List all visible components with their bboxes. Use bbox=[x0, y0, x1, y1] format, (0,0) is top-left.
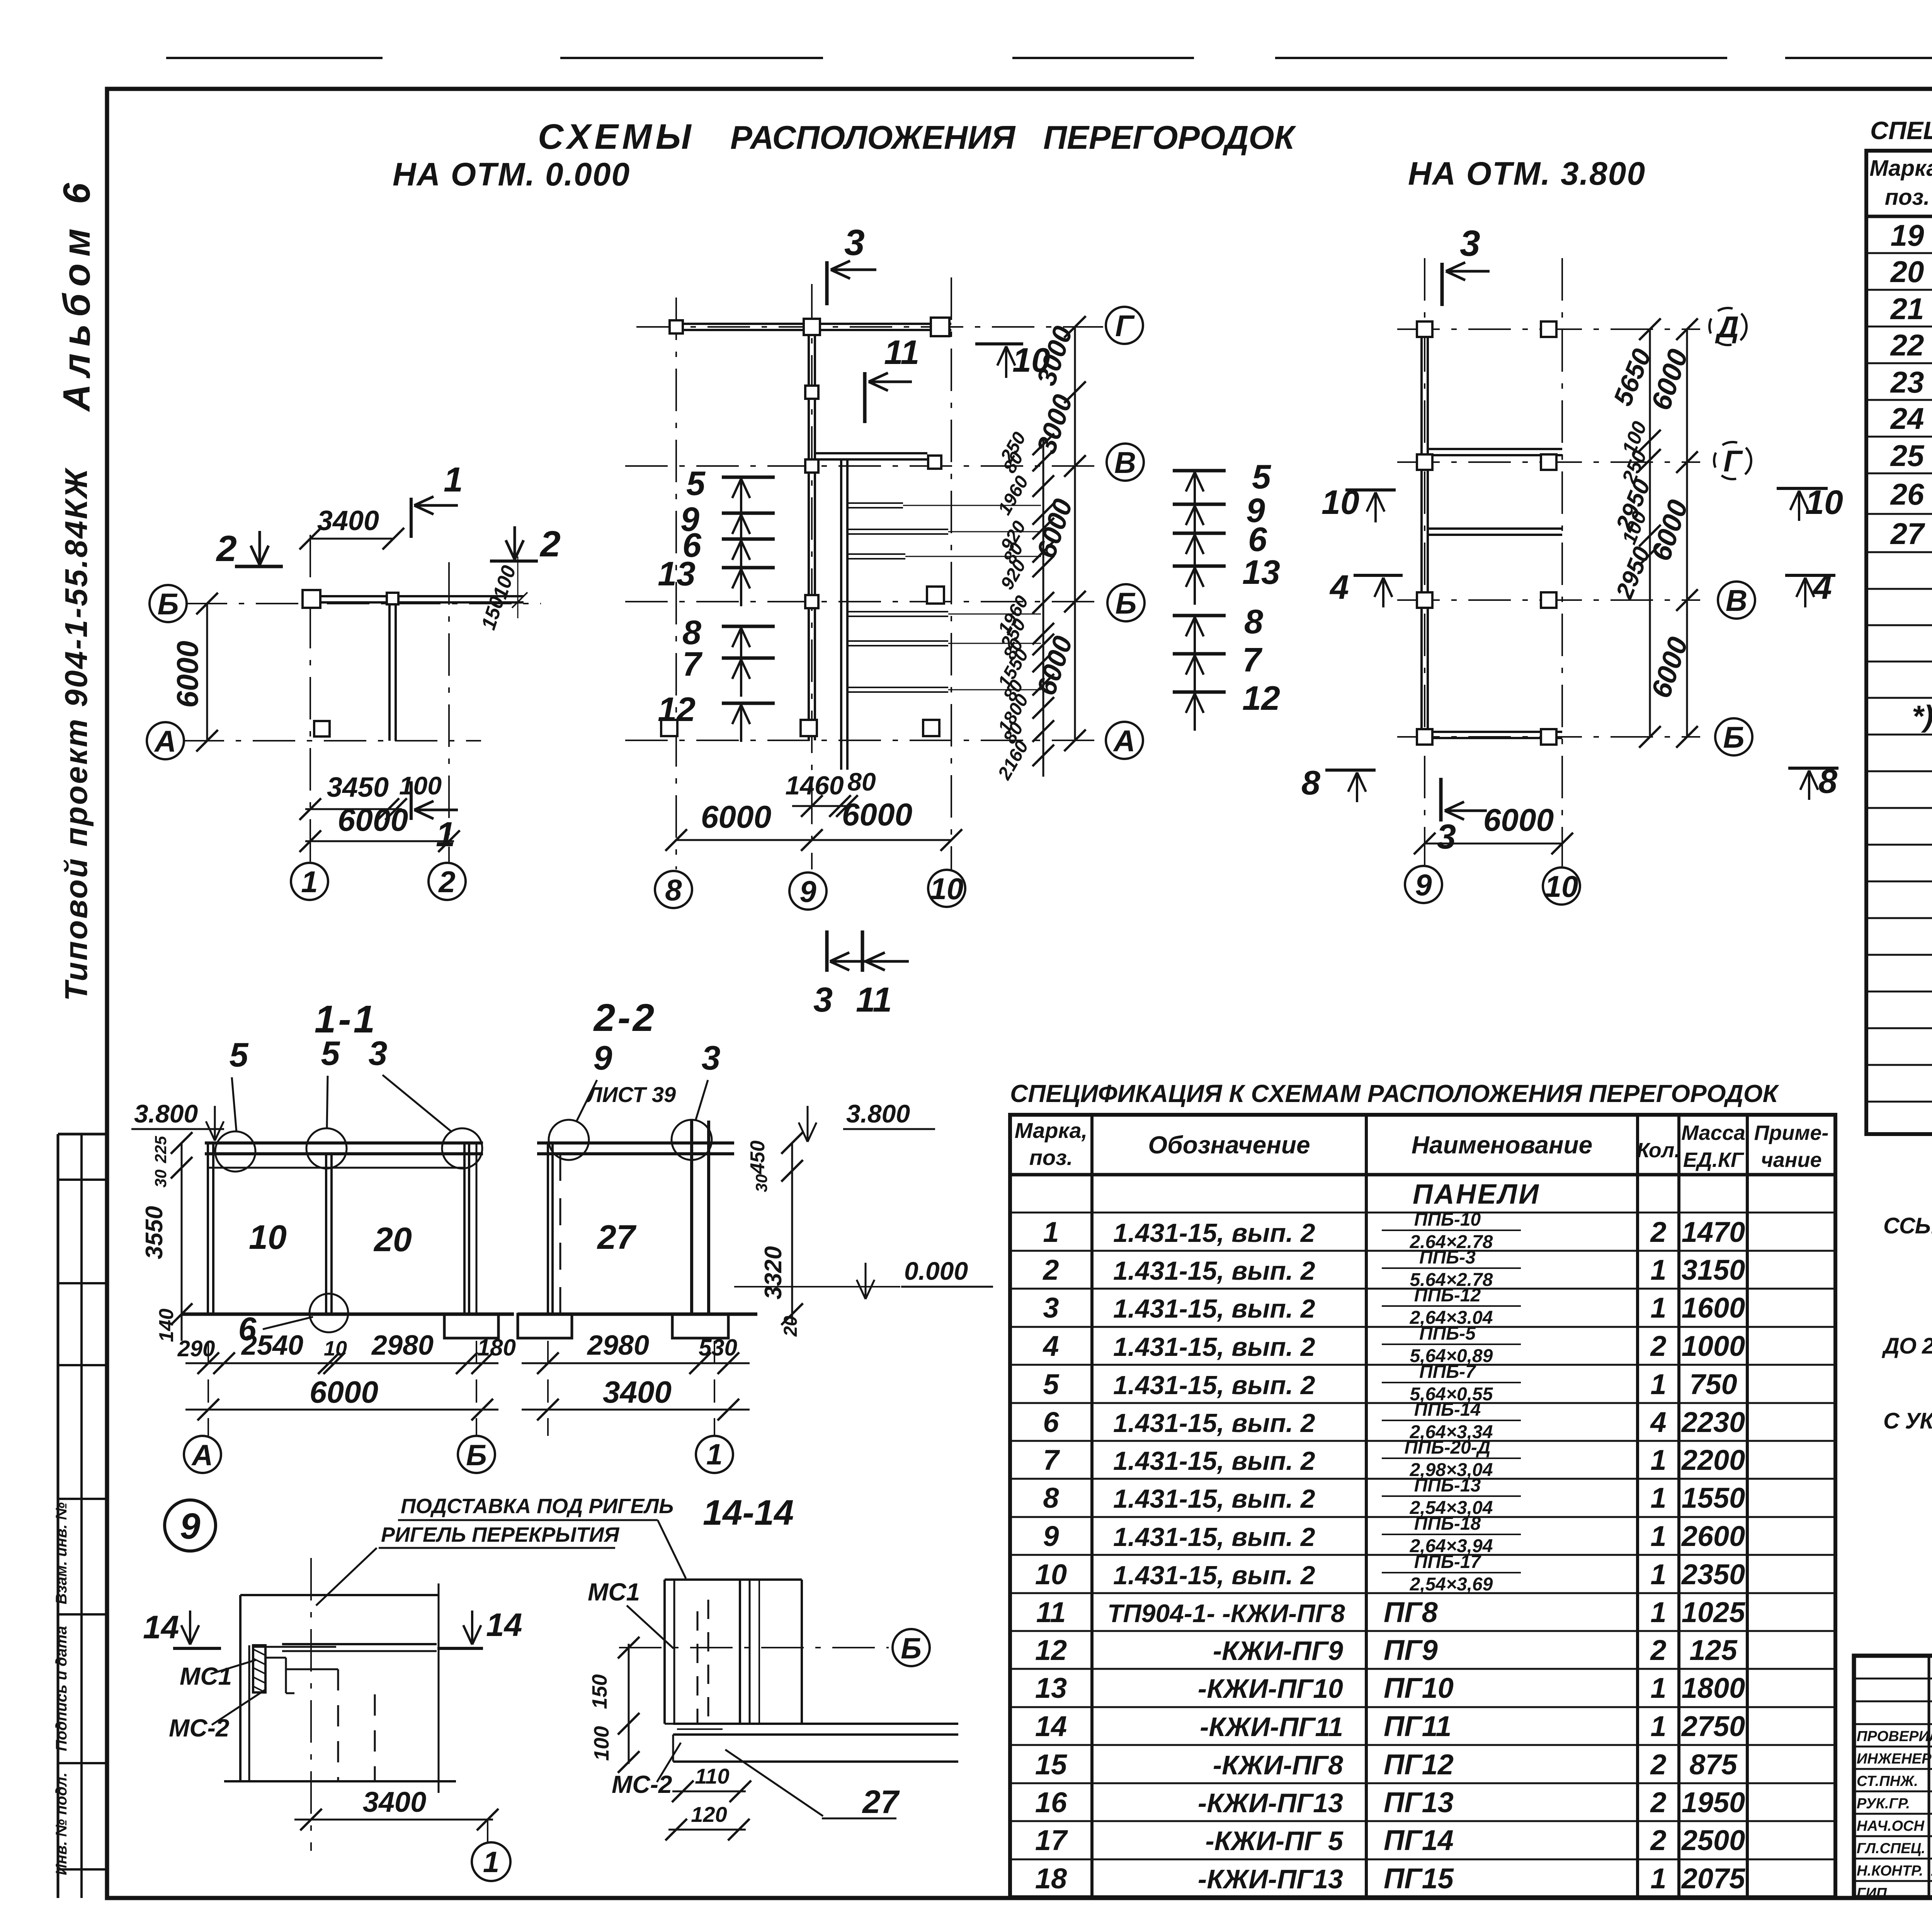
svg-text:Наименование: Наименование bbox=[1412, 1131, 1592, 1159]
svg-text:ССЫЛОК НА ЛИСТЫ, ПРИНЯТЫ ПО СЕ: ССЫЛОК НА ЛИСТЫ, ПРИНЯТЫ ПО СЕРИИ 1.431-… bbox=[1883, 1213, 1932, 1238]
svg-text:9: 9 bbox=[180, 1506, 201, 1547]
svg-text:5: 5 bbox=[321, 1034, 340, 1072]
svg-text:А: А bbox=[154, 724, 176, 758]
svg-text:5: 5 bbox=[230, 1036, 249, 1074]
svg-text:9: 9 bbox=[1043, 1520, 1059, 1552]
svg-text:20: 20 bbox=[373, 1220, 412, 1259]
svg-text:Марка,: Марка, bbox=[1869, 156, 1932, 181]
svg-text:3550: 3550 bbox=[141, 1206, 168, 1259]
svg-text:125: 125 bbox=[1689, 1634, 1738, 1666]
svg-text:5: 5 bbox=[1252, 457, 1271, 496]
svg-text:8: 8 bbox=[665, 873, 682, 907]
svg-text:ПЕРЕГОРОДОК: ПЕРЕГОРОДОК bbox=[1043, 119, 1297, 156]
svg-text:3: 3 bbox=[813, 981, 833, 1019]
svg-text:16: 16 bbox=[1035, 1786, 1067, 1818]
svg-text:2540: 2540 bbox=[241, 1330, 303, 1361]
svg-text:1: 1 bbox=[1650, 1444, 1666, 1476]
svg-text:3400: 3400 bbox=[363, 1786, 427, 1818]
svg-text:В: В bbox=[1114, 446, 1136, 480]
svg-text:2: 2 bbox=[1042, 1254, 1059, 1286]
svg-text:1.431-15, вып. 2: 1.431-15, вып. 2 bbox=[1113, 1256, 1315, 1286]
svg-text:1: 1 bbox=[706, 1438, 723, 1471]
svg-text:2: 2 bbox=[539, 524, 561, 565]
svg-text:2350: 2350 bbox=[1681, 1558, 1745, 1590]
svg-text:4: 4 bbox=[1650, 1406, 1666, 1438]
svg-text:13: 13 bbox=[658, 554, 696, 593]
svg-text:3150: 3150 bbox=[1682, 1254, 1745, 1286]
svg-text:НА ОТМ. 3.800: НА ОТМ. 3.800 bbox=[1408, 155, 1646, 192]
svg-text:МС1: МС1 bbox=[180, 1662, 232, 1690]
svg-text:ПАНЕЛИ: ПАНЕЛИ bbox=[1413, 1179, 1540, 1210]
svg-text:А: А bbox=[1113, 724, 1135, 758]
svg-text:3450: 3450 bbox=[327, 772, 389, 803]
svg-text:Д: Д bbox=[1715, 310, 1739, 344]
svg-text:2,54×3,69: 2,54×3,69 bbox=[1410, 1574, 1493, 1595]
svg-text:Кол.: Кол. bbox=[1637, 1139, 1680, 1162]
svg-text:Инв. № подл.: Инв. № подл. bbox=[53, 1772, 70, 1875]
svg-text:15: 15 bbox=[1035, 1748, 1068, 1781]
svg-text:9: 9 bbox=[1415, 868, 1432, 902]
svg-text:8: 8 bbox=[1244, 602, 1263, 641]
svg-text:Обозначение: Обозначение bbox=[1148, 1131, 1310, 1159]
svg-text:1: 1 bbox=[1650, 1292, 1666, 1324]
svg-text:10: 10 bbox=[324, 1337, 347, 1360]
svg-text:12: 12 bbox=[1242, 679, 1280, 717]
svg-text:2230: 2230 bbox=[1681, 1406, 1745, 1438]
svg-text:-КЖИ-ПГ13: -КЖИ-ПГ13 bbox=[1198, 1788, 1343, 1818]
svg-text:100: 100 bbox=[399, 771, 442, 800]
svg-text:10: 10 bbox=[1805, 483, 1843, 521]
svg-text:24: 24 bbox=[1890, 401, 1924, 435]
svg-text:1: 1 bbox=[436, 815, 455, 854]
svg-text:1025: 1025 bbox=[1682, 1596, 1746, 1628]
svg-text:ГИП: ГИП bbox=[1857, 1885, 1887, 1901]
svg-text:ПГ12: ПГ12 bbox=[1384, 1748, 1454, 1781]
svg-text:450: 450 bbox=[747, 1141, 769, 1175]
svg-text:1: 1 bbox=[1650, 1710, 1666, 1742]
svg-text:1: 1 bbox=[1650, 1558, 1666, 1590]
svg-text:27: 27 bbox=[1890, 517, 1925, 551]
svg-text:750: 750 bbox=[1689, 1368, 1737, 1400]
svg-text:8: 8 bbox=[1301, 764, 1320, 802]
svg-text:Б: Б bbox=[1723, 720, 1744, 754]
svg-text:5: 5 bbox=[686, 464, 706, 502]
svg-text:2200: 2200 bbox=[1681, 1444, 1745, 1476]
svg-text:Взам. инв. №: Взам. инв. № bbox=[53, 1502, 70, 1604]
svg-text:СТ.ПНЖ.: СТ.ПНЖ. bbox=[1857, 1773, 1918, 1789]
svg-text:ДО 200 мм ПРОБИТЬ ПО МЕСТУ.: ДО 200 мм ПРОБИТЬ ПО МЕСТУ. bbox=[1881, 1333, 1932, 1359]
svg-text:5: 5 bbox=[1043, 1368, 1060, 1400]
svg-text:ПГ10: ПГ10 bbox=[1384, 1672, 1454, 1704]
svg-text:6000: 6000 bbox=[701, 799, 771, 835]
svg-text:поз.: поз. bbox=[1029, 1145, 1073, 1170]
svg-text:11: 11 bbox=[1036, 1596, 1066, 1628]
svg-text:-КЖИ-ПГ13: -КЖИ-ПГ13 bbox=[1198, 1864, 1343, 1894]
svg-text:НА ОТМ. 0.000: НА ОТМ. 0.000 bbox=[393, 156, 630, 192]
svg-text:1: 1 bbox=[1650, 1520, 1666, 1552]
svg-text:2075: 2075 bbox=[1681, 1862, 1746, 1895]
svg-text:2500: 2500 bbox=[1681, 1824, 1745, 1856]
svg-text:Альбом 6: Альбом 6 bbox=[55, 176, 98, 413]
svg-text:10: 10 bbox=[1545, 869, 1578, 903]
svg-text:-КЖИ-ПГ9: -КЖИ-ПГ9 bbox=[1213, 1636, 1343, 1666]
svg-text:8: 8 bbox=[1043, 1482, 1059, 1514]
svg-text:1.431-15, вып. 2: 1.431-15, вып. 2 bbox=[1113, 1218, 1315, 1248]
svg-text:23: 23 bbox=[1890, 365, 1924, 399]
svg-text:Н.КОНТР.: Н.КОНТР. bbox=[1857, 1863, 1923, 1879]
svg-text:0.000: 0.000 bbox=[904, 1257, 968, 1285]
svg-text:2980: 2980 bbox=[587, 1330, 649, 1361]
svg-text:1600: 1600 bbox=[1682, 1292, 1745, 1324]
svg-text:20: 20 bbox=[1890, 255, 1924, 289]
svg-text:Г: Г bbox=[1723, 444, 1743, 478]
svg-text:-КЖИ-ПГ 5: -КЖИ-ПГ 5 bbox=[1205, 1826, 1344, 1856]
svg-text:-КЖИ-ПГ10: -КЖИ-ПГ10 bbox=[1198, 1673, 1343, 1704]
svg-text:Б: Б bbox=[901, 1632, 922, 1665]
svg-text:19: 19 bbox=[1891, 218, 1924, 252]
svg-text:2: 2 bbox=[1650, 1216, 1666, 1248]
svg-text:150: 150 bbox=[588, 1674, 611, 1709]
svg-text:2: 2 bbox=[438, 865, 455, 899]
svg-text:поз.: поз. bbox=[1885, 185, 1930, 210]
svg-text:3400: 3400 bbox=[603, 1375, 672, 1409]
svg-text:С УКАЗАНИЯМИ СЕРИИ 1.431-15: С УКАЗАНИЯМИ СЕРИИ 1.431-15 ВЫП.1. bbox=[1883, 1408, 1932, 1434]
svg-text:10: 10 bbox=[249, 1218, 287, 1256]
svg-text:1550: 1550 bbox=[1682, 1482, 1745, 1514]
svg-text:6000: 6000 bbox=[310, 1375, 378, 1409]
svg-text:чание: чание bbox=[1761, 1148, 1821, 1172]
svg-text:1460: 1460 bbox=[785, 771, 844, 800]
svg-text:1: 1 bbox=[483, 1846, 499, 1879]
svg-text:ИНЖЕНЕР: ИНЖЕНЕР bbox=[1857, 1751, 1932, 1767]
svg-text:4: 4 bbox=[1329, 568, 1349, 606]
svg-text:6: 6 bbox=[1043, 1406, 1059, 1438]
svg-text:-КЖИ-ПГ8: -КЖИ-ПГ8 bbox=[1213, 1750, 1343, 1780]
svg-text:ППБ-20-Д: ППБ-20-Д bbox=[1404, 1437, 1490, 1458]
svg-text:ППБ-17: ППБ-17 bbox=[1414, 1552, 1482, 1572]
svg-text:6000: 6000 bbox=[1483, 803, 1554, 838]
svg-text:7: 7 bbox=[1242, 641, 1263, 679]
svg-text:ППБ-13: ППБ-13 bbox=[1414, 1475, 1481, 1496]
svg-text:1: 1 bbox=[1650, 1368, 1666, 1400]
svg-text:ПОДСТАВКА ПОД РИГЕЛЬ: ПОДСТАВКА ПОД РИГЕЛЬ bbox=[401, 1495, 673, 1518]
svg-text:27: 27 bbox=[862, 1784, 900, 1820]
svg-text:Приме-: Приме- bbox=[1754, 1121, 1829, 1145]
svg-text:14: 14 bbox=[1035, 1710, 1067, 1742]
svg-text:10: 10 bbox=[930, 872, 964, 906]
svg-text:1000: 1000 bbox=[1682, 1330, 1745, 1362]
svg-text:11: 11 bbox=[884, 333, 919, 371]
svg-text:3: 3 bbox=[1437, 818, 1456, 856]
svg-text:СХЕМЫ: СХЕМЫ bbox=[538, 117, 695, 156]
svg-text:1.431-15, вып. 2: 1.431-15, вып. 2 bbox=[1113, 1484, 1315, 1514]
svg-text:Б: Б bbox=[466, 1439, 487, 1472]
svg-text:1: 1 bbox=[1650, 1596, 1666, 1628]
svg-text:Б: Б bbox=[157, 587, 179, 621]
svg-text:1.431-15, вып. 2: 1.431-15, вып. 2 bbox=[1113, 1561, 1315, 1590]
svg-text:10: 10 bbox=[1321, 483, 1359, 521]
svg-text:РИГЕЛЬ ПЕРЕКРЫТИЯ: РИГЕЛЬ ПЕРЕКРЫТИЯ bbox=[381, 1523, 620, 1546]
svg-text:80: 80 bbox=[847, 767, 876, 796]
svg-text:1: 1 bbox=[444, 461, 463, 499]
svg-text:12: 12 bbox=[1035, 1634, 1067, 1666]
svg-text:875: 875 bbox=[1689, 1748, 1738, 1781]
svg-text:3320: 3320 bbox=[760, 1246, 787, 1299]
svg-text:Б: Б bbox=[1115, 586, 1136, 620]
svg-text:13: 13 bbox=[1035, 1672, 1067, 1704]
svg-text:ГЛ.СПЕЦ.: ГЛ.СПЕЦ. bbox=[1857, 1840, 1925, 1857]
svg-text:2-2: 2-2 bbox=[593, 996, 657, 1039]
svg-text:290: 290 bbox=[177, 1336, 215, 1361]
svg-text:1800: 1800 bbox=[1682, 1672, 1745, 1704]
svg-text:22: 22 bbox=[1890, 328, 1924, 362]
svg-text:3: 3 bbox=[702, 1039, 721, 1077]
svg-text:225: 225 bbox=[151, 1136, 170, 1163]
svg-text:1950: 1950 bbox=[1682, 1786, 1745, 1818]
svg-text:20: 20 bbox=[781, 1316, 801, 1337]
svg-text:1.431-15, вып. 2: 1.431-15, вып. 2 bbox=[1113, 1332, 1315, 1362]
svg-text:МС-2: МС-2 bbox=[612, 1770, 672, 1798]
svg-text:ПГ14: ПГ14 bbox=[1384, 1824, 1454, 1856]
svg-text:3.800: 3.800 bbox=[134, 1099, 198, 1128]
svg-text:1: 1 bbox=[1650, 1254, 1666, 1286]
svg-text:3: 3 bbox=[1043, 1292, 1059, 1324]
svg-text:ПГ8: ПГ8 bbox=[1384, 1596, 1438, 1628]
svg-text:ПГ13: ПГ13 bbox=[1384, 1786, 1454, 1818]
svg-text:6000: 6000 bbox=[338, 803, 408, 838]
svg-text:10: 10 bbox=[1035, 1558, 1067, 1590]
svg-text:1.431-15, вып. 2: 1.431-15, вып. 2 bbox=[1113, 1371, 1315, 1400]
svg-text:Масса: Масса bbox=[1681, 1121, 1745, 1145]
svg-text:НАЧ.ОСН: НАЧ.ОСН bbox=[1857, 1818, 1925, 1834]
svg-text:ППБ-18: ППБ-18 bbox=[1414, 1514, 1481, 1534]
svg-text:14: 14 bbox=[143, 1609, 179, 1645]
svg-text:СПЕЦИФИКАЦИЯ К СХЕМАМ РАСПОЛОЖ: СПЕЦИФИКАЦИЯ К СХЕМАМ РАСПОЛОЖЕНИЯ ПЕРЕГ… bbox=[1010, 1080, 1779, 1107]
svg-text:2980: 2980 bbox=[371, 1330, 434, 1361]
svg-text:СПЕЦИФИКАЦИЯ К СХЕМАМ РАСПОЛОЖ: СПЕЦИФИКАЦИЯ К СХЕМАМ РАСПОЛОЖЕНИЯ ПЕРЕГ… bbox=[1870, 116, 1932, 145]
svg-text:9: 9 bbox=[799, 874, 816, 908]
svg-text:2: 2 bbox=[216, 528, 237, 569]
svg-text:2: 2 bbox=[1650, 1824, 1666, 1856]
svg-text:180: 180 bbox=[477, 1335, 516, 1361]
svg-text:2: 2 bbox=[1650, 1786, 1666, 1818]
svg-text:*): *) bbox=[1912, 699, 1932, 733]
svg-text:26: 26 bbox=[1890, 477, 1924, 511]
svg-text:8: 8 bbox=[1818, 762, 1837, 800]
svg-text:100: 100 bbox=[590, 1726, 613, 1761]
svg-text:ППБ-12: ППБ-12 bbox=[1414, 1285, 1481, 1306]
svg-text:ППБ-7: ППБ-7 bbox=[1419, 1362, 1476, 1382]
svg-text:27: 27 bbox=[597, 1218, 637, 1256]
svg-text:1: 1 bbox=[1650, 1672, 1666, 1704]
svg-text:2750: 2750 bbox=[1681, 1710, 1745, 1742]
svg-text:1470: 1470 bbox=[1682, 1216, 1745, 1248]
svg-text:РУК.ГР.: РУК.ГР. bbox=[1857, 1796, 1910, 1812]
svg-text:2: 2 bbox=[1650, 1748, 1666, 1781]
svg-text:ПГ15: ПГ15 bbox=[1384, 1862, 1454, 1895]
svg-text:140: 140 bbox=[155, 1309, 178, 1342]
svg-text:7: 7 bbox=[1043, 1444, 1060, 1476]
svg-text:13: 13 bbox=[1242, 553, 1280, 591]
svg-text:ТП904-1- -КЖИ-ПГ8: ТП904-1- -КЖИ-ПГ8 bbox=[1107, 1599, 1345, 1628]
svg-text:1: 1 bbox=[1650, 1482, 1666, 1514]
svg-text:РАСПОЛОЖЕНИЯ: РАСПОЛОЖЕНИЯ bbox=[730, 119, 1016, 156]
svg-text:530: 530 bbox=[699, 1335, 737, 1361]
svg-text:1.431-15, вып. 2: 1.431-15, вып. 2 bbox=[1113, 1522, 1315, 1552]
svg-text:14: 14 bbox=[486, 1607, 522, 1643]
svg-text:3: 3 bbox=[844, 222, 865, 263]
svg-text:ППБ-14: ППБ-14 bbox=[1414, 1400, 1481, 1420]
svg-text:-КЖИ-ПГ11: -КЖИ-ПГ11 bbox=[1200, 1712, 1343, 1742]
svg-text:ППБ-5: ППБ-5 bbox=[1419, 1323, 1476, 1344]
svg-text:2: 2 bbox=[1650, 1634, 1666, 1666]
svg-text:1: 1 bbox=[1650, 1862, 1666, 1895]
svg-text:4: 4 bbox=[1042, 1330, 1059, 1362]
svg-text:3: 3 bbox=[1460, 223, 1480, 264]
svg-text:Типовой проект 904-1-55.84КЖ: Типовой проект 904-1-55.84КЖ bbox=[59, 467, 94, 1001]
svg-text:ЕД.КГ: ЕД.КГ bbox=[1683, 1148, 1745, 1172]
svg-text:9: 9 bbox=[594, 1039, 612, 1077]
svg-text:4: 4 bbox=[1812, 568, 1832, 606]
svg-text:ПРОВЕРИЛ: ПРОВЕРИЛ bbox=[1857, 1728, 1932, 1745]
svg-text:25: 25 bbox=[1890, 439, 1925, 473]
svg-text:21: 21 bbox=[1890, 292, 1924, 326]
svg-text:ППБ-10: ППБ-10 bbox=[1414, 1209, 1481, 1230]
svg-text:6000: 6000 bbox=[842, 797, 912, 832]
svg-text:3: 3 bbox=[369, 1034, 388, 1072]
svg-text:17: 17 bbox=[1035, 1824, 1068, 1856]
svg-text:ПГ9: ПГ9 bbox=[1384, 1634, 1438, 1666]
svg-text:30: 30 bbox=[752, 1174, 770, 1192]
svg-text:1: 1 bbox=[301, 865, 318, 899]
svg-text:12: 12 bbox=[658, 690, 696, 728]
svg-text:Марка,: Марка, bbox=[1015, 1118, 1087, 1143]
svg-text:11: 11 bbox=[856, 981, 892, 1019]
svg-text:1.431-15, вып. 2: 1.431-15, вып. 2 bbox=[1113, 1446, 1315, 1476]
svg-text:1.431-15, вып. 2: 1.431-15, вып. 2 bbox=[1113, 1294, 1315, 1323]
svg-text:3.800: 3.800 bbox=[846, 1099, 910, 1128]
svg-text:2: 2 bbox=[1650, 1330, 1666, 1362]
svg-text:ПГ11: ПГ11 bbox=[1384, 1710, 1451, 1742]
svg-text:1.431-15, вып. 2: 1.431-15, вып. 2 bbox=[1113, 1408, 1315, 1438]
svg-text:В: В bbox=[1726, 583, 1747, 617]
svg-text:120: 120 bbox=[691, 1802, 727, 1827]
svg-text:110: 110 bbox=[695, 1764, 729, 1788]
svg-text:ППБ-3: ППБ-3 bbox=[1419, 1247, 1476, 1268]
svg-text:30: 30 bbox=[151, 1170, 170, 1188]
svg-text:МС1: МС1 bbox=[588, 1578, 640, 1606]
svg-text:6000: 6000 bbox=[170, 641, 204, 708]
svg-text:3400: 3400 bbox=[317, 505, 379, 536]
svg-text:Подпись и дата: Подпись и дата bbox=[53, 1626, 70, 1751]
svg-text:2600: 2600 bbox=[1681, 1520, 1745, 1552]
svg-text:18: 18 bbox=[1035, 1862, 1067, 1895]
svg-text:ЛИСТ 39: ЛИСТ 39 bbox=[586, 1082, 676, 1107]
svg-text:7: 7 bbox=[682, 645, 703, 683]
svg-text:14-14: 14-14 bbox=[703, 1493, 794, 1532]
svg-text:А: А bbox=[191, 1439, 213, 1472]
svg-text:1: 1 bbox=[1043, 1216, 1059, 1248]
svg-text:Г: Г bbox=[1115, 309, 1135, 343]
